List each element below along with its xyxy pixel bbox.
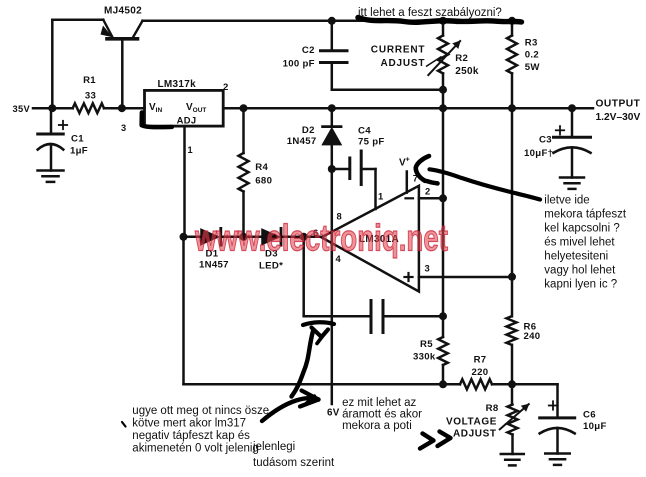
svg-text:ADJUST: ADJUST	[453, 429, 497, 440]
svg-text:CURRENT: CURRENT	[371, 45, 426, 56]
svg-text:ugye ott meg ot nincs ösze: ugye ott meg ot nincs ösze	[132, 405, 269, 417]
svg-text:MJ4502: MJ4502	[104, 6, 142, 17]
svg-text:vagy hol lehet: vagy hol lehet	[544, 265, 616, 277]
svg-text:helyetesiteni: helyetesiteni	[544, 251, 608, 263]
svg-text:C6: C6	[583, 410, 596, 421]
svg-text:akimenetén 0 volt jelenig: akimenetén 0 volt jelenig	[132, 442, 259, 454]
svg-text:R3: R3	[525, 38, 538, 49]
svg-text:ADJ: ADJ	[177, 115, 197, 126]
svg-text:iletve ide: iletve ide	[544, 195, 589, 207]
svg-text:10μF: 10μF	[583, 421, 607, 432]
svg-text:jelenlegi: jelenlegi	[252, 441, 295, 453]
svg-text:OUTPUT: OUTPUT	[596, 99, 641, 110]
svg-text:100 pF: 100 pF	[283, 59, 315, 70]
svg-text:680: 680	[255, 176, 272, 187]
svg-text:R8: R8	[486, 403, 499, 414]
svg-text:2: 2	[425, 186, 431, 197]
svg-text:1μF: 1μF	[70, 146, 88, 157]
svg-text:ADJUST: ADJUST	[380, 58, 425, 69]
svg-text:2: 2	[223, 82, 229, 93]
svg-text:0.2: 0.2	[525, 50, 539, 61]
svg-text:C3: C3	[539, 135, 552, 146]
svg-text:LM317k: LM317k	[158, 79, 197, 90]
svg-text:3: 3	[121, 123, 126, 133]
svg-text:mekora a poti: mekora a poti	[342, 420, 412, 432]
svg-text:R4: R4	[255, 162, 268, 173]
svg-text:R5: R5	[420, 339, 433, 350]
svg-text:6V: 6V	[327, 408, 340, 419]
svg-text:C1: C1	[71, 134, 84, 145]
svg-text:kel kapcsolni ?: kel kapcsolni ?	[544, 223, 619, 235]
svg-text:5W: 5W	[525, 62, 541, 73]
svg-text:1N457: 1N457	[199, 260, 229, 271]
svg-text:és mivel lehet: és mivel lehet	[544, 237, 615, 249]
svg-text:mekora tápfeszt: mekora tápfeszt	[544, 209, 627, 221]
svg-text:negativ tápfeszt kap és: negativ tápfeszt kap és	[132, 430, 250, 442]
svg-text:ez mit lehet az: ez mit lehet az	[342, 397, 416, 409]
svg-text:250k: 250k	[455, 66, 479, 77]
svg-text:C4: C4	[358, 126, 371, 137]
svg-text:33: 33	[85, 91, 96, 102]
svg-text:www.electroniq.net: www.electroniq.net	[194, 218, 448, 259]
svg-text:áramott és akor: áramott és akor	[342, 409, 422, 421]
svg-text:VOLTAGE: VOLTAGE	[446, 416, 497, 427]
svg-text:1N457: 1N457	[287, 136, 317, 147]
svg-text:1: 1	[188, 145, 193, 155]
svg-text:75 pF: 75 pF	[358, 137, 385, 148]
svg-text:1.2V–30V: 1.2V–30V	[596, 112, 641, 123]
svg-text:10μF†: 10μF†	[524, 148, 553, 159]
svg-text:R1: R1	[83, 75, 96, 86]
svg-text:R7: R7	[474, 355, 487, 366]
svg-text:240: 240	[524, 331, 541, 342]
svg-text:itt lehet a feszt szabályozni?: itt lehet a feszt szabályozni?	[358, 7, 502, 19]
svg-text:3: 3	[425, 263, 431, 274]
svg-text:35V: 35V	[13, 104, 31, 114]
svg-text:C2: C2	[302, 45, 315, 56]
svg-text:330k: 330k	[413, 352, 436, 363]
svg-text:D2: D2	[302, 125, 315, 136]
svg-text:220: 220	[472, 367, 489, 378]
svg-text:kapni lyen ic ?: kapni lyen ic ?	[544, 279, 617, 291]
svg-text:tudásom szerint: tudásom szerint	[253, 457, 335, 469]
svg-text:LED*: LED*	[259, 261, 283, 272]
svg-text:kötve mert akor lm317: kötve mert akor lm317	[132, 417, 246, 429]
svg-text:R2: R2	[455, 53, 468, 64]
svg-text:1: 1	[378, 191, 384, 202]
